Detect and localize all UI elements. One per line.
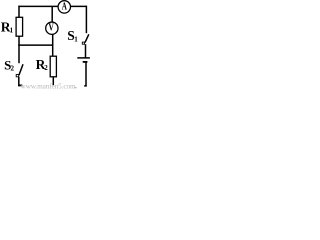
svg-text:1: 1: [10, 26, 14, 34]
svg-text:1: 1: [74, 35, 78, 43]
svg-text:2: 2: [11, 65, 15, 73]
svg-text:V: V: [49, 22, 55, 33]
svg-text:www.manfen5.com: www.manfen5.com: [21, 83, 77, 91]
svg-text:A: A: [62, 0, 68, 12]
svg-text:2: 2: [44, 64, 48, 72]
